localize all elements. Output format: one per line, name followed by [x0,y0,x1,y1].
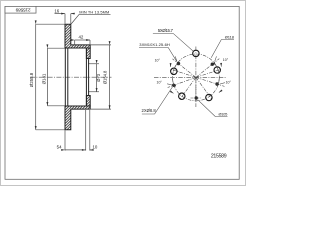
spoke 141.6 [172,59,196,78]
hat wall hatched bottom [86,96,90,107]
svg-text:Ø73: Ø73 [96,73,101,81]
outer edge [1,1,246,186]
dim 54/10 ext line mid [85,110,87,151]
min th leader [71,14,110,24]
spoke 18 [196,69,222,78]
bolt circle Ø118 [173,54,220,101]
centerline left view [30,76,112,78]
outboard face inner edge line [67,48,69,106]
dim 141 ext line top [47,47,64,49]
svg-text:54: 54 [57,145,62,150]
small hole Ø8.8 lower-left [172,84,175,87]
svg-text:2XØ8.8: 2XØ8.8 [142,108,157,113]
bolt hole Ø15.7 top [193,50,199,56]
leader Ø118 [211,40,234,58]
dim 10 line [90,149,93,151]
dim 16 arrow left [55,13,66,15]
small hole M10 upper-right [211,62,214,65]
bore bottom edge [88,91,99,93]
dim 16 arrow right [71,13,75,15]
outboard face edge line [64,48,66,106]
small hole Ø8.8 lower-right [215,82,218,85]
dim 10 arrow [90,149,94,151]
rim+flange hatched top [65,24,90,48]
dim 154.8 ext line bottom [90,108,111,110]
bore top edge [88,63,99,65]
svg-text:215589: 215589 [15,7,30,12]
dim 42 line [75,39,90,41]
svg-text:5XØ15.7: 5XØ15.7 [158,28,174,33]
bolt hole Ø15.7 left-lower [179,93,185,99]
center mark bottom hole [191,97,202,99]
spoke 270 [195,77,197,103]
dim 16 ext line left [64,14,66,24]
svg-text:10°: 10° [157,81,163,85]
vertical centerline [195,47,197,108]
dim OD 255.8 ext line bottom [36,129,65,131]
10deg tick near 38.8 [215,56,217,61]
dim 42 ext line left [74,40,76,44]
horizontal centerline [154,76,227,78]
svg-text:10°: 10° [223,58,229,62]
spoke 306 [196,77,212,99]
svg-text:MIN TH 13.5MM: MIN TH 13.5MM [79,9,109,14]
angular dim arc 182-201 [173,78,175,86]
dim 73 line [96,64,98,92]
spoke 38.8 [196,59,219,78]
dim OD 255.8 line [35,24,37,130]
svg-text:215589: 215589 [211,153,227,159]
hat wall hatched top [86,48,90,59]
dim 141 line [46,48,48,106]
dim 54 ext line left [64,130,66,150]
spoke 162 [170,69,196,78]
leader 2XØ8.8 [142,87,173,114]
hat interior floor line [85,48,87,106]
dim 16 ext line right [70,14,72,24]
drawing frame [5,6,239,179]
dim OD 255.8 ext line top [36,23,65,25]
small hole M10 bottom [195,96,198,99]
spoke 199.6 [168,77,196,87]
bolt hole Ø15.7 right-lower [206,94,212,100]
svg-text:10: 10 [92,144,97,149]
leader 5XØ15.7 [153,34,194,52]
bore chamfer line [88,59,90,96]
small hole M10 upper-left [177,62,180,65]
title box [5,6,36,13]
svg-text:Ø118: Ø118 [225,35,235,40]
svg-text:Ø141: Ø141 [41,73,46,84]
svg-text:42: 42 [78,35,83,40]
svg-text:3XM10X1.25-6H: 3XM10X1.25-6H [139,42,170,47]
leader Ø105 [198,100,228,117]
leader 3XM10X1.25-6H [139,48,177,62]
10deg tick near 342.6 [220,83,225,84]
dim 154.8 line [109,45,111,109]
angular dim arc 339-358 [218,78,220,86]
spoke 342.6 [196,77,225,86]
svg-text:Ø255.8: Ø255.8 [29,72,34,87]
dim 10 ext line right [89,110,91,151]
angular dim arc 16-40 [214,62,219,71]
dim 154.8 ext line top [90,44,111,46]
rim+flange hatched bottom [65,106,90,130]
10deg tick near 199.6 [167,84,172,85]
svg-text:Ø154.8: Ø154.8 [103,70,108,84]
spoke 234 [180,77,196,99]
dim 141 ext line bottom [47,105,64,107]
dim 54 line [65,149,86,151]
svg-text:Ø105: Ø105 [219,112,228,116]
angular dim arc 140-164 [173,62,178,71]
bolt hole Ø15.7 left-upper [171,68,177,74]
dim 42 ext line right [89,40,91,44]
svg-text:10°: 10° [226,80,232,84]
10deg tick near 141.6 [175,56,177,61]
svg-text:10°: 10° [155,58,161,62]
bolt hole Ø15.7 right-upper [214,67,220,73]
svg-text:16: 16 [54,8,59,13]
